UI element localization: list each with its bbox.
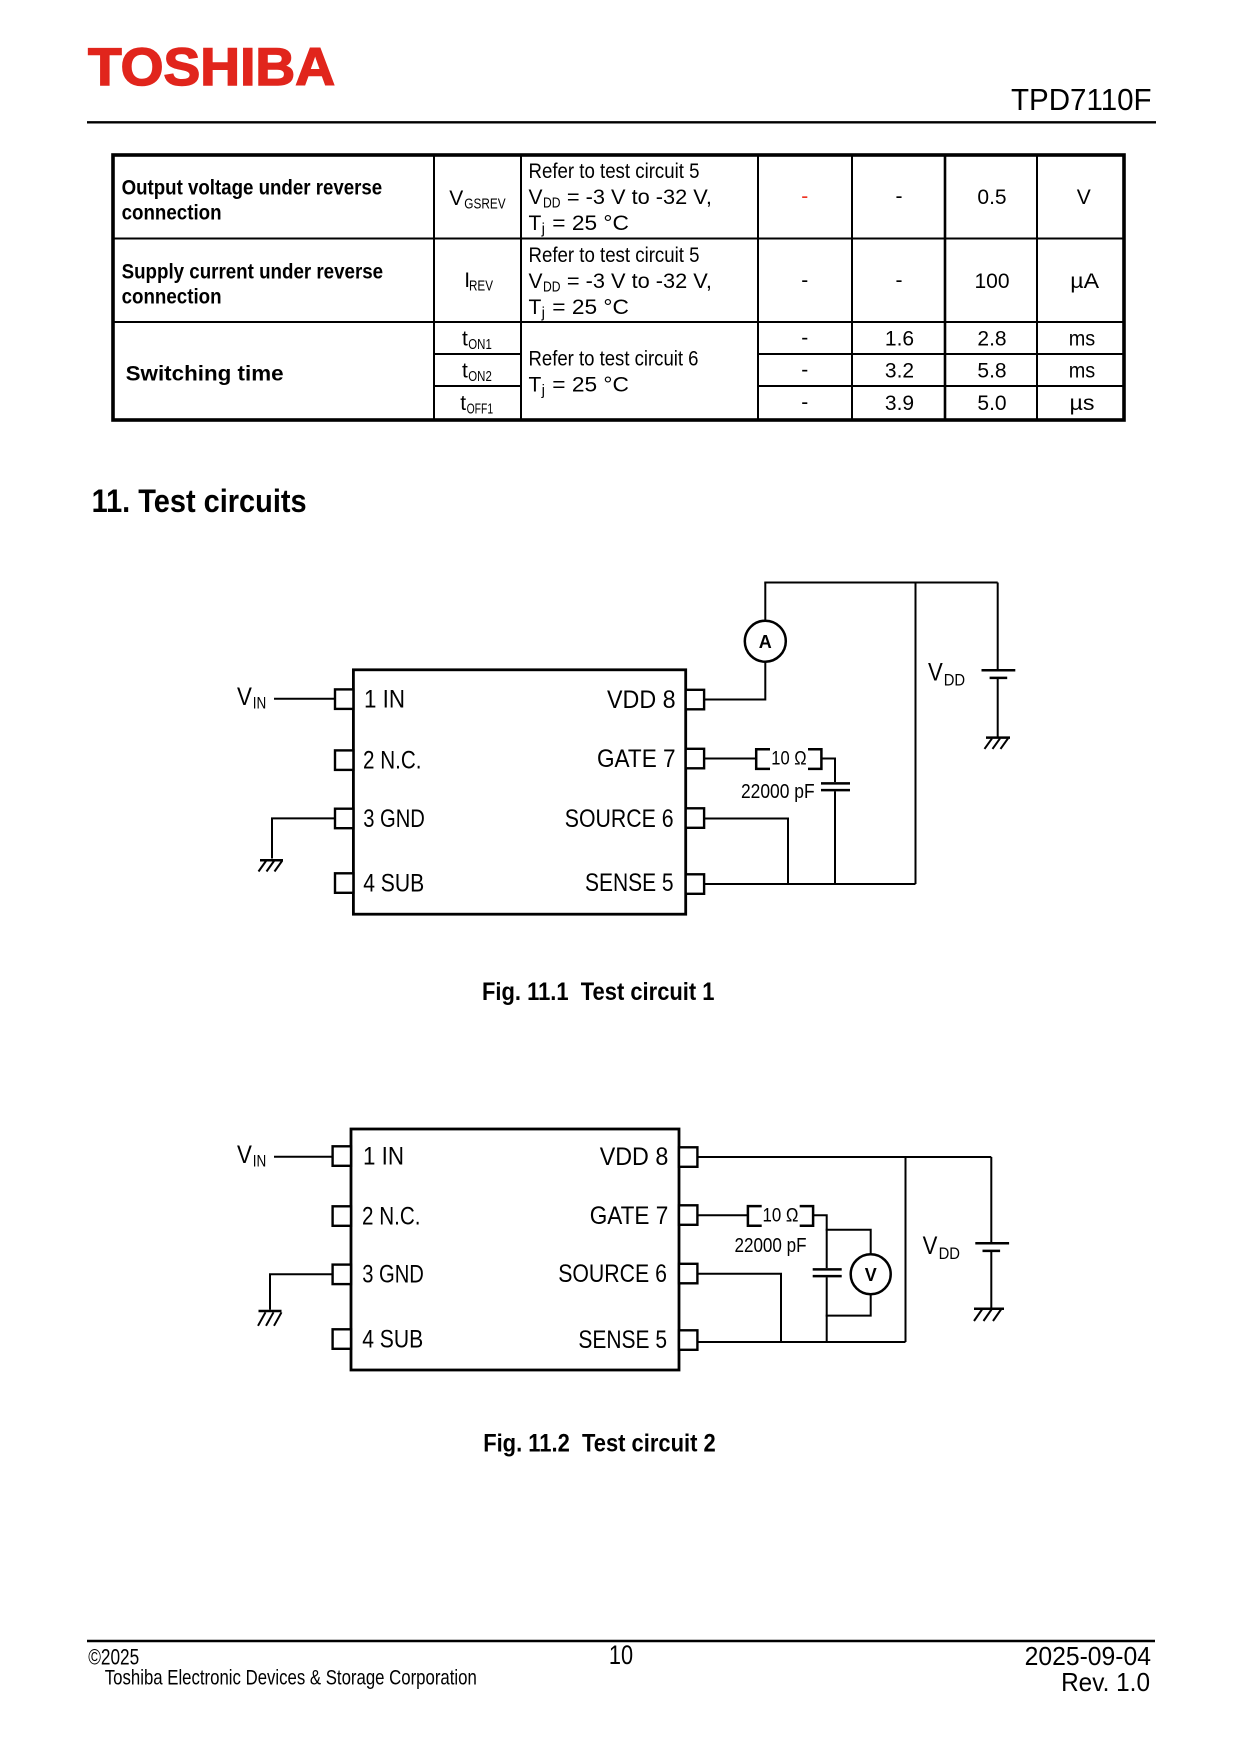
svg-text:V: V	[1077, 186, 1091, 209]
svg-text:OFF1: OFF1	[467, 401, 494, 418]
svg-text:22000 pF: 22000 pF	[741, 781, 815, 803]
row 3	[126, 327, 1096, 418]
svg-text:2 N.C.: 2 N.C.	[363, 747, 422, 775]
svg-text:0.5: 0.5	[977, 186, 1006, 209]
wire resistor to capacitor	[821, 759, 835, 783]
ground (pin 3)	[259, 860, 284, 871]
wire pin 3 GND to ground	[272, 818, 335, 858]
svg-text:j: j	[541, 221, 545, 238]
svg-text:V: V	[928, 659, 943, 687]
wire voltmeter bottom to capacitor bottom	[826, 1294, 871, 1315]
svg-text:T: T	[529, 212, 542, 235]
pin 4 SUB (circuit 2)	[333, 1326, 424, 1354]
svg-text:Refer to test circuit 6: Refer to test circuit 6	[529, 348, 699, 371]
node VDD label (circuit 1)	[928, 659, 965, 690]
svg-text:TOSHIBA: TOSHIBA	[88, 38, 335, 97]
svg-text:SENSE 5: SENSE 5	[578, 1326, 667, 1354]
svg-text:GATE 7: GATE 7	[590, 1202, 669, 1230]
wire VIN to pin 1 (circuit 2)	[274, 1156, 333, 1158]
wire pin 5 SENSE rail	[704, 883, 916, 885]
svg-text:SOURCE 6: SOURCE 6	[558, 1260, 667, 1288]
wire pin 8 VDD to ammeter	[704, 662, 765, 700]
pin 4 SUB	[335, 870, 424, 898]
resistor R1 10 ohm	[756, 749, 821, 770]
svg-text:µA: µA	[1070, 270, 1099, 293]
wire junction to voltmeter top	[826, 1230, 871, 1254]
svg-text:V: V	[529, 270, 543, 293]
pin 1 IN	[335, 686, 405, 714]
ground (battery, circuit 2)	[974, 1309, 1004, 1321]
svg-text:= -3 V to -32 V,: = -3 V to -32 V,	[567, 186, 712, 209]
wire top rail	[764, 582, 997, 584]
svg-text:V: V	[237, 1141, 252, 1169]
svg-text:-: -	[801, 327, 808, 350]
wire pin 5 SENSE rail (circuit 2)	[697, 1341, 905, 1343]
svg-text:10 Ω: 10 Ω	[763, 1205, 799, 1226]
svg-text:5.8: 5.8	[977, 360, 1006, 383]
pin 8 VDD	[607, 686, 704, 714]
pin 6 SOURCE	[565, 805, 704, 833]
svg-text:Fig. 11.2 Test circuit 2: Fig. 11.2 Test circuit 2	[483, 1429, 716, 1457]
svg-text:connection: connection	[122, 202, 222, 225]
wire pin 3 GND to ground (circuit 2)	[270, 1274, 333, 1309]
svg-text:1.6: 1.6	[885, 328, 914, 351]
wire capacitor to sense rail (circuit 2)	[826, 1277, 828, 1342]
svg-text:T: T	[529, 374, 542, 397]
svg-text:V: V	[529, 186, 543, 209]
svg-text:3.2: 3.2	[885, 360, 914, 383]
CAPTION2	[483, 1429, 716, 1457]
svg-text:3 GND: 3 GND	[363, 805, 425, 833]
svg-text:TPD7110F: TPD7110F	[1011, 82, 1152, 117]
svg-text:ms: ms	[1069, 360, 1096, 383]
svg-text:-: -	[801, 269, 808, 292]
CAPTION1	[482, 978, 715, 1006]
svg-text:DD: DD	[543, 195, 561, 212]
svg-text:V: V	[237, 683, 252, 711]
svg-text:IN: IN	[253, 1152, 266, 1171]
svg-text:VDD 8: VDD 8	[607, 686, 676, 714]
svg-text:GATE 7: GATE 7	[597, 745, 676, 773]
pin 2 N.C. (circuit 2)	[333, 1203, 421, 1231]
pin 8 VDD (circuit 2)	[600, 1143, 698, 1171]
svg-text:Refer to test circuit 5: Refer to test circuit 5	[529, 244, 700, 267]
wire top rail to sense rail (right mid vertical)	[915, 583, 917, 885]
pin 3 GND	[335, 805, 425, 833]
svg-text:Rev. 1.0: Rev. 1.0	[1061, 1667, 1150, 1697]
IC U2 TPD7110F body	[351, 1129, 679, 1370]
svg-text:A: A	[759, 632, 772, 652]
svg-text:V: V	[923, 1232, 938, 1260]
svg-text:-: -	[896, 185, 903, 208]
svg-text:DD: DD	[944, 671, 965, 690]
svg-text:= -3 V to -32 V,: = -3 V to -32 V,	[567, 270, 712, 293]
svg-text:4 SUB: 4 SUB	[363, 870, 424, 898]
wire pin 6 SOURCE down to sense rail	[704, 819, 788, 885]
svg-text:-: -	[896, 269, 903, 292]
svg-text:1 IN: 1 IN	[364, 686, 405, 714]
svg-text:10 Ω: 10 Ω	[771, 749, 806, 770]
svg-text:VDD 8: VDD 8	[600, 1143, 669, 1171]
svg-text:= 25 °C: = 25 °C	[552, 296, 629, 319]
pin 1 IN (circuit 2)	[333, 1143, 404, 1171]
svg-text:IN: IN	[253, 694, 266, 713]
header rule	[87, 121, 1156, 123]
voltmeter V1	[851, 1254, 891, 1294]
wire sense rail up to VDD rail (circuit 2)	[905, 1156, 907, 1342]
svg-text:Refer to test circuit 5: Refer to test circuit 5	[529, 160, 700, 183]
capacitor C1 22000 pF	[741, 781, 850, 803]
capacitor C2 22000 pF	[735, 1235, 842, 1276]
svg-text:4 SUB: 4 SUB	[362, 1326, 423, 1354]
svg-text:3.9: 3.9	[885, 392, 914, 415]
table vertical lines	[433, 155, 435, 420]
svg-text:V: V	[865, 1265, 877, 1285]
svg-text:REV: REV	[469, 278, 493, 295]
svg-text:11. Test circuits: 11. Test circuits	[92, 483, 307, 519]
resistor R2 10 ohm	[748, 1205, 813, 1226]
battery V_DD (circuit 1)	[982, 583, 1016, 737]
pin 5 SENSE	[585, 869, 704, 897]
pin 3 GND (circuit 2)	[333, 1260, 424, 1288]
wire ammeter to top rail	[764, 583, 766, 621]
svg-text:t: t	[460, 392, 466, 415]
Toshiba logo	[88, 38, 335, 97]
svg-text:10: 10	[609, 1640, 633, 1670]
svg-text:t: t	[462, 360, 468, 383]
svg-text:µs: µs	[1070, 392, 1095, 415]
svg-text:Supply current under reverse: Supply current under reverse	[122, 261, 384, 284]
svg-text:-: -	[801, 391, 808, 414]
pin 7 GATE (circuit 2)	[590, 1202, 698, 1230]
svg-text:t: t	[462, 328, 468, 351]
svg-text:22000 pF: 22000 pF	[735, 1235, 807, 1257]
wire capacitor to sense rail	[834, 791, 836, 884]
svg-text:SENSE 5: SENSE 5	[585, 869, 674, 897]
svg-text:-: -	[801, 185, 808, 208]
svg-text:Fig. 11.1 Test circuit 1: Fig. 11.1 Test circuit 1	[482, 978, 715, 1006]
node VDD label (circuit 2)	[923, 1232, 960, 1263]
IC U1 TPD7110F body	[353, 670, 685, 914]
svg-text:ON2: ON2	[468, 368, 492, 385]
svg-text:ms: ms	[1069, 328, 1096, 351]
row 1	[122, 160, 1091, 238]
svg-text:j: j	[541, 382, 545, 399]
wire VIN to pin 1	[274, 698, 335, 700]
node VIN label (circuit 2)	[237, 1141, 266, 1171]
ground (pin 3, circuit 2)	[258, 1311, 282, 1326]
wire pin 7 GATE to resistor	[704, 758, 756, 760]
svg-text:T: T	[529, 296, 542, 319]
svg-text:2.8: 2.8	[977, 328, 1006, 351]
svg-text:DD: DD	[543, 279, 561, 296]
pin 6 SOURCE (circuit 2)	[558, 1260, 697, 1288]
svg-text:-: -	[801, 359, 808, 382]
row 2	[122, 244, 1100, 322]
svg-text:Output voltage under reverse: Output voltage under reverse	[122, 177, 383, 200]
svg-text:DD: DD	[939, 1244, 960, 1263]
svg-text:1 IN: 1 IN	[363, 1143, 404, 1171]
node VIN label	[237, 683, 266, 713]
battery V_DD (circuit 2)	[975, 1157, 1009, 1308]
svg-text:V: V	[449, 187, 463, 210]
pin 5 SENSE (circuit 2)	[578, 1326, 697, 1354]
wire pin 6 SOURCE down to sense rail (circuit 2)	[697, 1274, 781, 1342]
wire resistor to capacitor (circuit 2)	[813, 1215, 827, 1268]
wire pin 7 GATE to resistor (circuit 2)	[697, 1214, 748, 1216]
table outer border	[113, 155, 1124, 420]
svg-text:connection: connection	[122, 286, 222, 309]
part number title	[1011, 82, 1152, 117]
ammeter A1	[745, 621, 786, 662]
svg-text:SOURCE 6: SOURCE 6	[565, 805, 674, 833]
table horizontal lines	[113, 238, 1124, 240]
svg-text:Toshiba Electronic Devices & S: Toshiba Electronic Devices & Storage Cor…	[105, 1667, 477, 1690]
svg-text:= 25 °C: = 25 °C	[552, 374, 629, 397]
svg-text:GSREV: GSREV	[464, 196, 505, 213]
svg-text:j: j	[541, 305, 545, 322]
svg-text:100: 100	[974, 270, 1009, 293]
svg-text:= 25 °C: = 25 °C	[552, 212, 629, 235]
svg-text:2 N.C.: 2 N.C.	[362, 1203, 421, 1231]
ground (battery, circuit 1)	[985, 738, 1011, 749]
pin 2 N.C.	[335, 747, 422, 775]
wire pin 8 VDD top rail to battery	[697, 1156, 991, 1158]
svg-text:3 GND: 3 GND	[362, 1260, 424, 1288]
pin 7 GATE	[597, 745, 704, 773]
svg-text:Switching time: Switching time	[126, 363, 284, 386]
svg-text:ON1: ON1	[468, 336, 492, 353]
svg-text:5.0: 5.0	[977, 392, 1006, 415]
